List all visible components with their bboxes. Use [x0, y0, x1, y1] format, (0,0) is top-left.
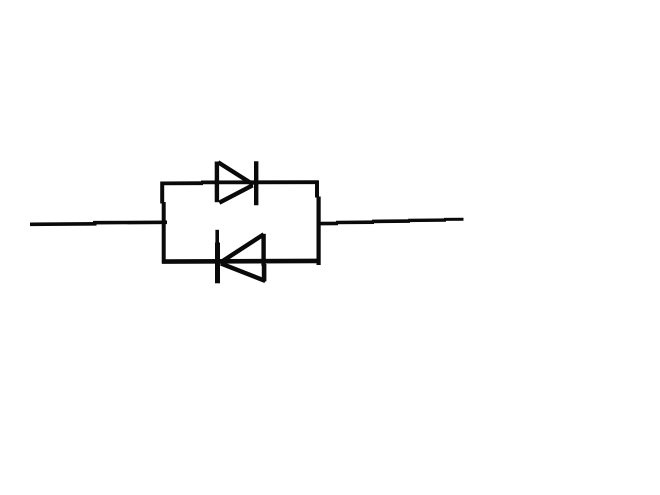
wire W2: left vertical branch of loop — [162, 182, 164, 264]
wire W6: right lead — [319, 219, 464, 223]
diode D2 (bottom branch, anode right / cathode left) — [217, 230, 265, 283]
wire W1: left lead — [30, 222, 167, 224]
wire W5: right vertical branch of loop — [317, 181, 319, 266]
wire W3: top branch of loop — [161, 182, 318, 183]
wire W4: bottom branch of loop — [162, 259, 319, 264]
diode D1 (top branch, anode left / cathode right) — [217, 161, 256, 205]
